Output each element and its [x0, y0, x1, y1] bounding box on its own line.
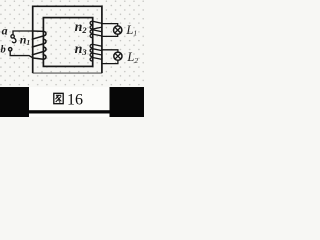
svg-text:b: b	[1, 44, 6, 55]
svg-text:16: 16	[67, 92, 83, 109]
svg-text:a: a	[2, 24, 8, 38]
